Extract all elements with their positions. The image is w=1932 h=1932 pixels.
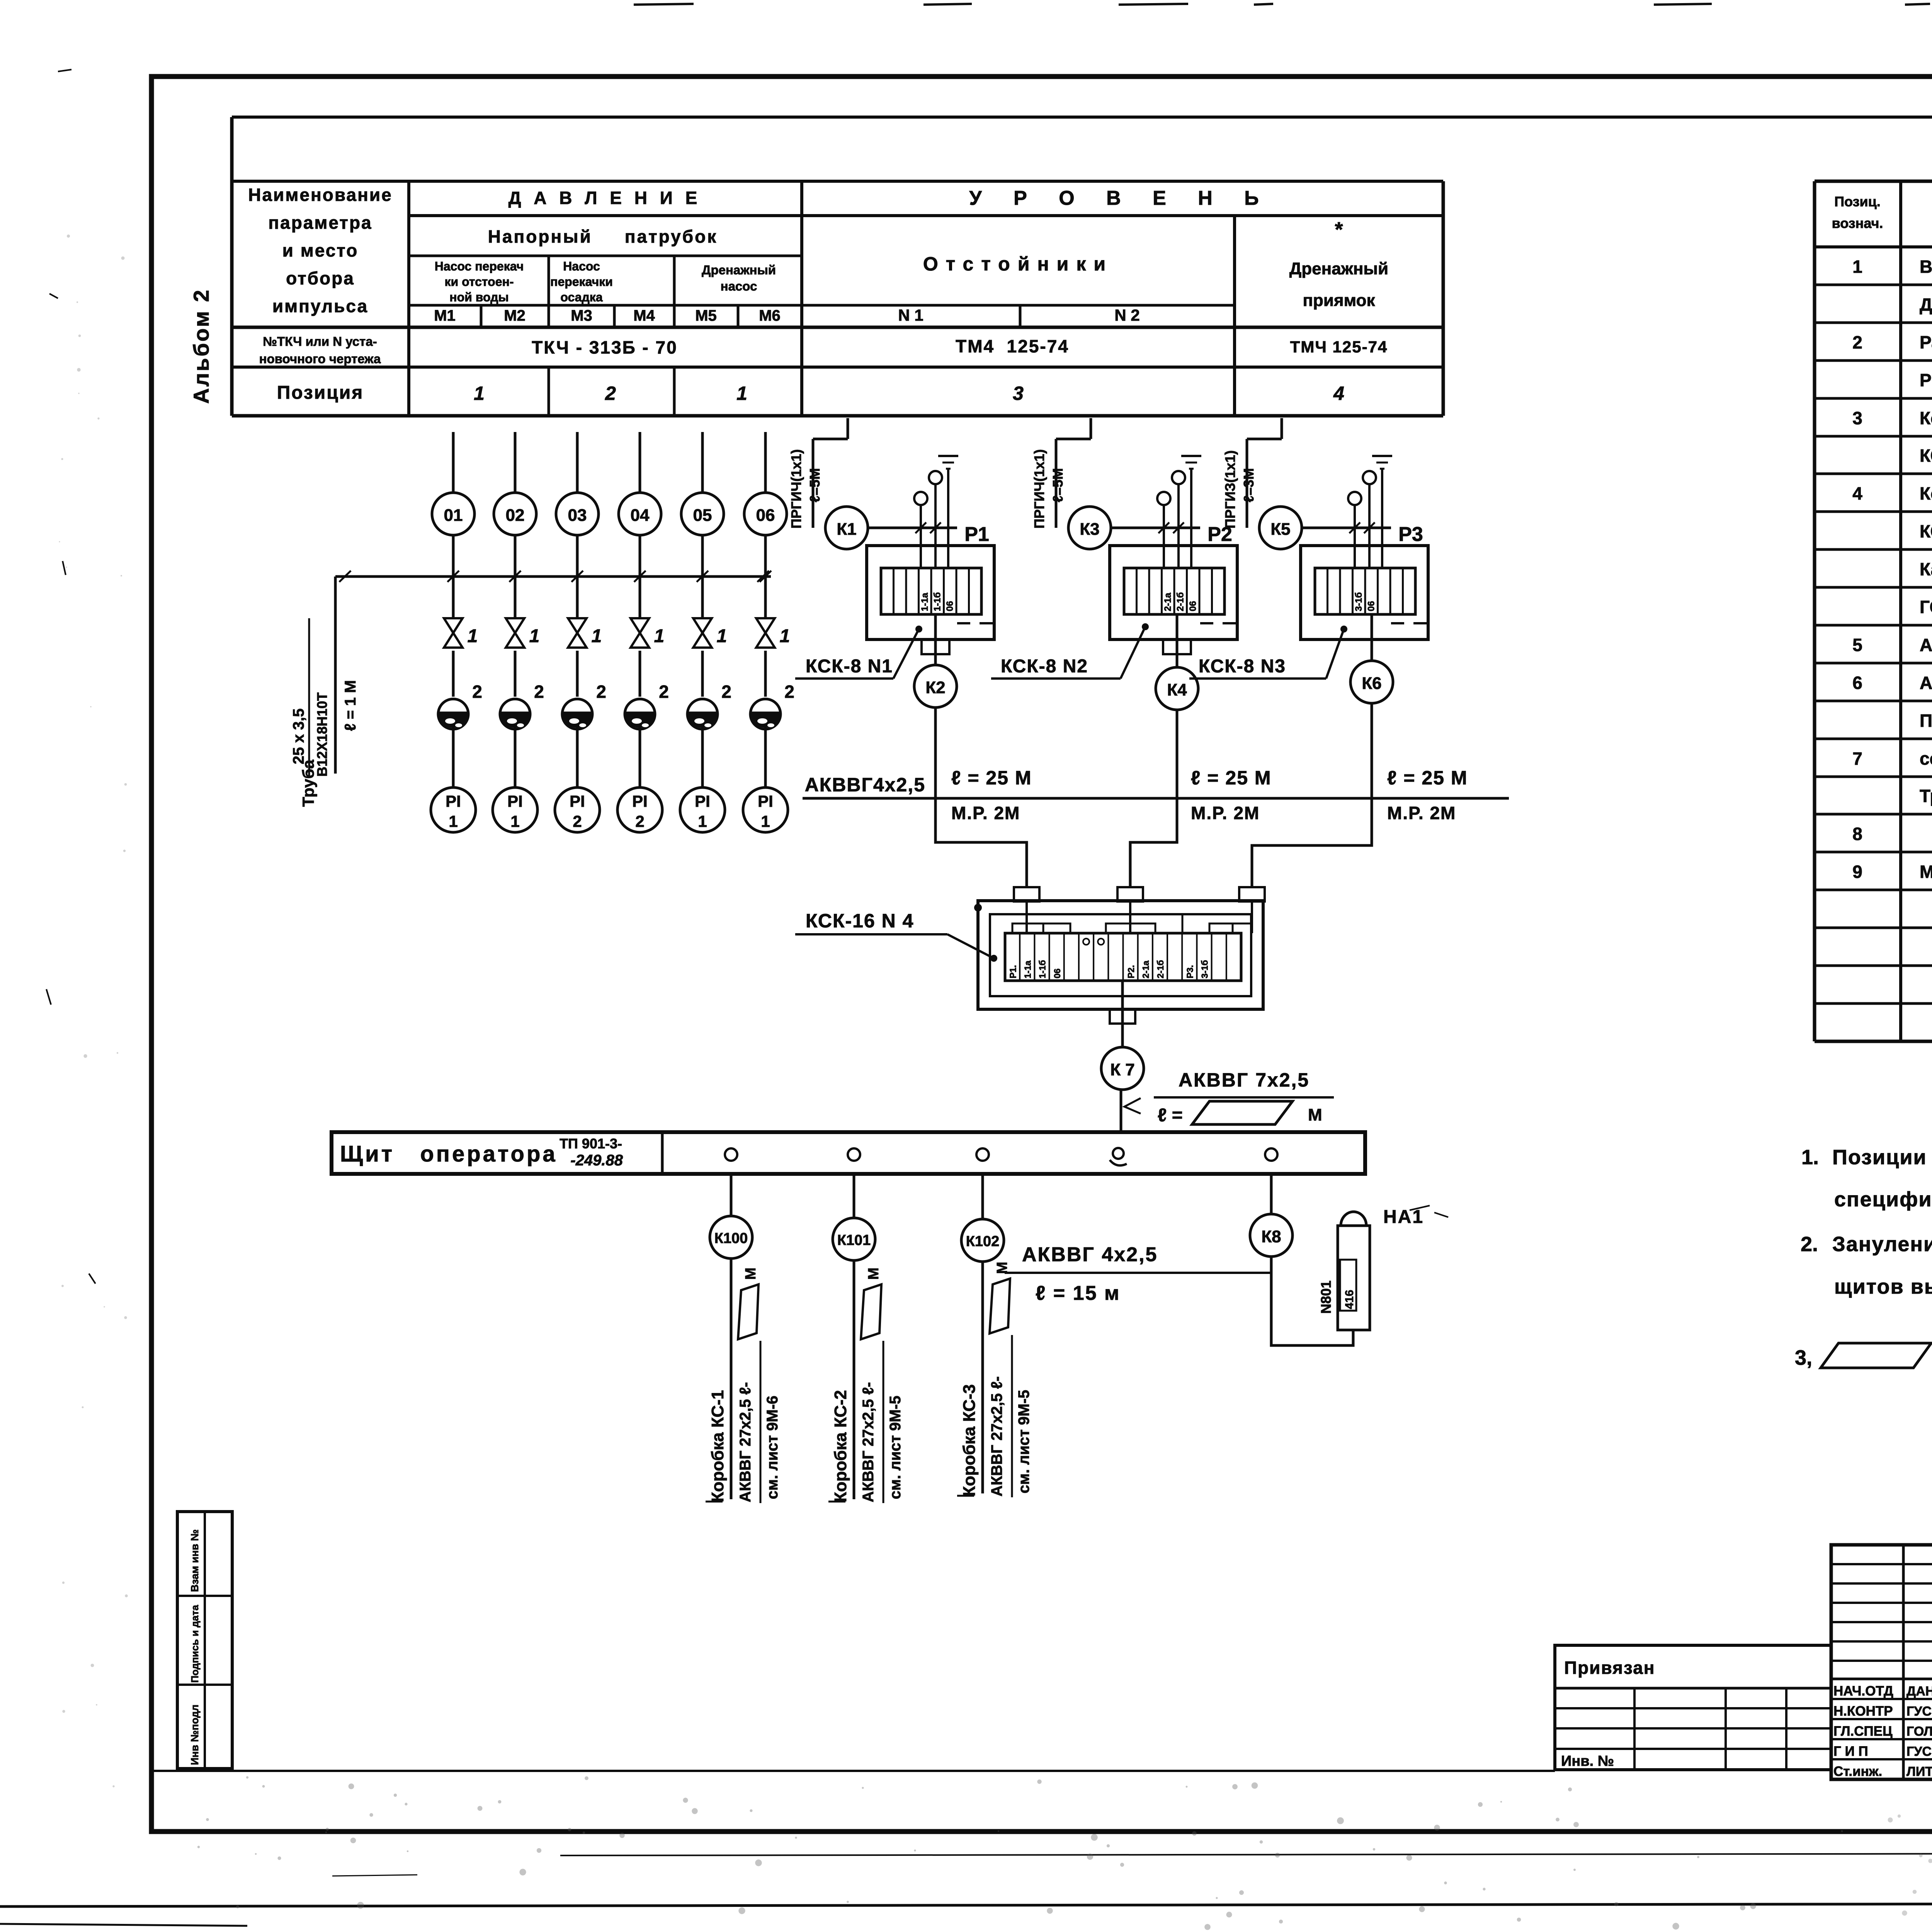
svg-text:К6: К6 — [1362, 674, 1381, 693]
impulse line 3 stem — [576, 432, 579, 493]
cable drop from К6 — [1371, 703, 1373, 798]
svg-text:2: 2 — [605, 383, 616, 404]
svg-text:3-1б: 3-1б — [1354, 592, 1364, 611]
device HA1 (horn) — [1341, 1212, 1366, 1226]
svg-text:М: М — [1308, 1105, 1322, 1124]
svg-text:Зануление приборов, коробок,: Зануление приборов, коробок, каркасов — [1832, 1233, 1932, 1256]
svg-text:-249.88: -249.88 — [570, 1152, 623, 1169]
impulse line 6 stem — [764, 432, 767, 493]
svg-text:1: 1 — [510, 812, 519, 830]
svg-text:№ТКЧ или N уста-: №ТКЧ или N уста- — [263, 334, 377, 349]
wire strip to circle — [1371, 614, 1373, 661]
svg-text:АКВВГ4х2,5: АКВВГ4х2,5 — [805, 774, 925, 796]
svg-text:416: 416 — [1343, 1290, 1356, 1309]
svg-text:Дренажный: Дренажный — [702, 263, 776, 277]
crossing ticks — [447, 571, 459, 582]
svg-text:ℓ = 25 М: ℓ = 25 М — [1191, 767, 1272, 789]
top long horizontal line — [232, 116, 1932, 119]
wire — [514, 651, 517, 697]
cable drop from К4 — [1176, 710, 1179, 798]
terminal circle — [929, 471, 942, 484]
svg-text:новочного чертежа: новочного чертежа — [259, 352, 381, 366]
circle K8 — [1250, 1214, 1293, 1257]
wire K8 to HA1 — [1271, 1257, 1353, 1345]
svg-text:ДАНИЛОВ: ДАНИЛОВ — [1906, 1684, 1932, 1699]
svg-text:8: 8 — [1852, 824, 1862, 844]
svg-text:N 2: N 2 — [1114, 306, 1139, 324]
wire — [452, 535, 455, 617]
svg-text:и место: и место — [282, 240, 359, 260]
svg-text:ГЛ.СПЕЦ: ГЛ.СПЕЦ — [1833, 1724, 1893, 1739]
svg-text:2-1б: 2-1б — [1175, 592, 1185, 611]
wire — [639, 651, 641, 697]
svg-text:К2: К2 — [925, 678, 945, 697]
svg-text:1: 1 — [529, 626, 540, 646]
svg-text:Подпись и дата: Подпись и дата — [189, 1605, 201, 1683]
panel terminals — [725, 1148, 737, 1161]
manometer PI2 (line 4) — [617, 787, 662, 832]
cable gland stub — [1163, 639, 1191, 654]
wire — [452, 726, 455, 787]
svg-text:06: 06 — [756, 506, 775, 525]
svg-text:перекачки: перекачки — [550, 275, 613, 289]
svg-text:Позиц.: Позиц. — [1834, 194, 1881, 209]
svg-text:К100: К100 — [714, 1230, 748, 1247]
svg-text:06: 06 — [945, 601, 955, 611]
svg-text:КСК-8 N3: КСК-8 N3 — [1199, 656, 1286, 677]
svg-text:3: 3 — [1852, 408, 1862, 428]
svg-text:Инв. №: Инв. № — [1561, 1753, 1614, 1769]
membrane separator 2 (line 1) — [438, 699, 468, 729]
ground symbol — [938, 455, 958, 457]
svg-text:1-1б: 1-1б — [1037, 960, 1048, 978]
svg-text:2: 2 — [534, 682, 544, 702]
cable drop and label Korobka KC-3 — [981, 1262, 984, 1493]
svg-text:РМ 5319: РМ 5319 — [1920, 370, 1932, 390]
junction box KCK-8 N1 outline Р1 — [867, 546, 994, 639]
scan noise top dashes — [634, 4, 694, 5]
svg-text:1: 1 — [592, 626, 602, 646]
impulse line 1 stem — [452, 432, 455, 493]
circle К3 — [1068, 507, 1111, 549]
svg-text:ГУСЕВА: ГУСЕВА — [1906, 1744, 1932, 1759]
terminal strip KCK-16 — [1005, 933, 1241, 981]
wire — [701, 726, 704, 787]
svg-text:спецификации АТХ. С01. Альбо: спецификации АТХ. С01. Альбом 5 — [1834, 1188, 1932, 1211]
svg-text:М6: М6 — [759, 307, 781, 324]
circle K7 — [1101, 1047, 1144, 1090]
svg-text:АКВВГ 4 х 2,5 кв. мм: АКВВГ 4 х 2,5 кв. мм — [1920, 635, 1932, 655]
svg-text:ПРГИЧ(1х1): ПРГИЧ(1х1) — [788, 449, 804, 529]
svg-text:Металлорукав Р3-Ц-Х29: Металлорукав Р3-Ц-Х29 — [1920, 862, 1932, 882]
svg-text:параметра: параметра — [268, 213, 372, 233]
svg-text:Д А В Л Е Н И Е: Д А В Л Е Н И Е — [509, 188, 701, 208]
svg-text:Альбом 2: Альбом 2 — [189, 288, 213, 404]
svg-text:1: 1 — [698, 812, 707, 830]
svg-text:Р3.: Р3. — [1185, 965, 1195, 978]
svg-text:1: 1 — [654, 626, 665, 646]
svg-text:ГОЛЬЦМАН: ГОЛЬЦМАН — [1906, 1724, 1932, 1739]
wire from circle into box — [1111, 527, 1200, 529]
svg-text:М5: М5 — [695, 307, 717, 324]
internal conductors — [1026, 901, 1028, 933]
cable drop and label Korobka KC-1 — [730, 1259, 733, 1499]
manometer PI1 (line 5) — [680, 787, 725, 832]
svg-text:К102: К102 — [966, 1233, 1000, 1250]
junction box KCK-8 N2 outline Р2 — [1110, 546, 1237, 639]
valve 1 (line 5) — [693, 618, 712, 633]
manometer PI1 (line 2) — [493, 787, 537, 832]
svg-text:Коробка соединительная: Коробка соединительная — [1920, 408, 1932, 428]
svg-text:приямок: приямок — [1303, 291, 1375, 310]
svg-text:PI: PI — [758, 792, 773, 810]
svg-text:03: 03 — [568, 506, 587, 525]
wire from circle into box — [1302, 527, 1391, 529]
svg-text:PI: PI — [446, 792, 461, 810]
svg-text:1: 1 — [761, 812, 770, 830]
svg-text:2-1а: 2-1а — [1141, 961, 1151, 978]
circle К100 — [710, 1216, 752, 1259]
svg-text:ки отстоен-: ки отстоен- — [445, 275, 514, 289]
wire — [701, 535, 704, 617]
length parallelogram placeholder — [1192, 1101, 1293, 1124]
svg-text:см. лист 9М-5: см. лист 9М-5 — [887, 1396, 904, 1499]
wire — [639, 726, 641, 787]
svg-text:PI: PI — [695, 792, 710, 810]
cable drop from К2 — [934, 707, 937, 798]
valve 1 (line 6) — [756, 618, 775, 633]
manometer PI1 (line 6) — [743, 787, 788, 832]
svg-text:2: 2 — [635, 812, 644, 830]
svg-text:1: 1 — [717, 626, 727, 646]
impulse collecting line — [335, 575, 771, 578]
svg-text:3,: 3, — [1795, 1346, 1812, 1369]
svg-text:АКВВГ 27х2,5 ℓ-: АКВВГ 27х2,5 ℓ- — [988, 1376, 1005, 1497]
wire strip to K7 — [1121, 981, 1124, 1047]
svg-text:Г И П: Г И П — [1833, 1744, 1868, 1759]
impulse line 5 stem — [701, 432, 704, 493]
svg-text:ТМ4 125-74: ТМ4 125-74 — [956, 336, 1069, 356]
svg-text:насос: насос — [721, 279, 757, 293]
svg-text:Насос перекач: Насос перекач — [435, 259, 524, 273]
svg-text:Коробка КС-3: Коробка КС-3 — [960, 1384, 979, 1497]
riser to table with label ПРГИЧ(1х1) — [1055, 439, 1058, 528]
cable drop and label Korobka KC-2 — [853, 1260, 855, 1499]
svg-text:*: * — [1335, 218, 1343, 241]
wire — [514, 535, 517, 617]
svg-text:Р1: Р1 — [964, 523, 989, 546]
ground symbol — [1181, 455, 1201, 457]
svg-text:1-1а: 1-1а — [1022, 961, 1032, 978]
svg-text:Р3: Р3 — [1398, 523, 1423, 546]
membrane separator 2 (line 2) — [500, 699, 530, 729]
svg-text:N801: N801 — [1318, 1281, 1334, 1314]
svg-text:АКВВГ 7 х 2,5 кв. мм: АКВВГ 7 х 2,5 кв. мм — [1920, 673, 1932, 693]
dashed internal line — [1200, 622, 1237, 624]
sensor circle 02 — [494, 493, 536, 535]
svg-text:АКВВГ 4х2,5: АКВВГ 4х2,5 — [1022, 1243, 1158, 1266]
svg-text:М: М — [743, 1267, 759, 1280]
svg-text:2-1б: 2-1б — [1155, 960, 1165, 978]
svg-text:М4: М4 — [633, 307, 655, 324]
svg-text:АКВВГ 27х2,5 ℓ-: АКВВГ 27х2,5 ℓ- — [860, 1382, 877, 1502]
wire — [576, 726, 579, 787]
dashed internal line — [1391, 622, 1428, 624]
left horizontal line to frame — [154, 1770, 1555, 1772]
valve 1 (line 4) — [631, 618, 649, 633]
sensor circle 01 — [432, 493, 474, 535]
svg-text:щитов выполнить согласно ПУЭ: щитов выполнить согласно ПУЭ-85 §I-7-46. — [1834, 1275, 1932, 1298]
svg-text:6: 6 — [1852, 673, 1862, 693]
cable gland stubs on top — [1014, 887, 1039, 901]
svg-text:ПРГИЧ(1х1): ПРГИЧ(1х1) — [1031, 449, 1047, 529]
scan noise left margin marks — [58, 70, 71, 71]
svg-text:Вентиль запорный муфтовый: Вентиль запорный муфтовый — [1920, 257, 1932, 277]
svg-text:Привязан: Привязан — [1564, 1658, 1655, 1678]
title block grid — [1831, 1545, 1932, 1779]
svg-text:5: 5 — [1852, 635, 1862, 655]
svg-text:осадка: осадка — [560, 290, 602, 304]
terminal circle — [1172, 471, 1185, 484]
wire panel to К101 — [853, 1174, 855, 1218]
svg-text:1: 1 — [1852, 257, 1862, 277]
svg-text:сечением ; ПРГИ 1х1 кв. мм: сечением ; ПРГИ 1х1 кв. мм — [1920, 748, 1932, 769]
svg-text:Щит оператора: Щит оператора — [340, 1141, 558, 1167]
terminal strip — [1315, 568, 1415, 614]
svg-text:ℓ = 25 М: ℓ = 25 М — [1387, 767, 1468, 789]
wire strip to circle — [1176, 614, 1179, 667]
valve 1 (line 2) — [506, 618, 524, 633]
collecting line corner drop (pipe) — [334, 577, 337, 774]
wire — [514, 726, 517, 787]
svg-text:ТП 901-3-: ТП 901-3- — [560, 1136, 622, 1151]
junction box KCK-16 N4 outline — [978, 901, 1263, 1009]
svg-text:М3: М3 — [571, 307, 592, 324]
parameter table grid — [230, 117, 234, 416]
svg-text:Напорный патрубок: Напорный патрубок — [488, 226, 718, 247]
svg-text:М.Р. 2М: М.Р. 2М — [1191, 803, 1260, 823]
svg-text:Труба бесшовная ГОСТ 9941-8: Труба бесшовная ГОСТ 9941-81, — [1920, 786, 1932, 806]
terminal strip — [881, 568, 981, 614]
pipe label Truba 25x3.5 / V12X18N10T, l=1m — [308, 618, 310, 776]
svg-text:ℓ =: ℓ = — [1158, 1105, 1183, 1126]
svg-text:ℓ = 15 м: ℓ = 15 м — [1036, 1282, 1120, 1304]
svg-text:PI: PI — [570, 792, 585, 810]
svg-text:1-1а: 1-1а — [920, 592, 930, 611]
svg-text:01: 01 — [444, 506, 463, 525]
svg-text:ТМЧ 125-74: ТМЧ 125-74 — [1290, 338, 1388, 356]
membrane separator 2 (line 5) — [687, 699, 718, 729]
svg-text:К101: К101 — [837, 1232, 871, 1248]
svg-text:ГОСТ 1508-78Е , сечением :: ГОСТ 1508-78Е , сечением : — [1920, 597, 1932, 617]
svg-text:К1: К1 — [837, 520, 856, 539]
svg-text:КСК-8 ; ТУ 36. 1753-75: КСК-8 ; ТУ 36. 1753-75 — [1920, 446, 1932, 466]
svg-text:ℓ=5М: ℓ=5М — [1050, 468, 1066, 502]
svg-text:Наименование: Наименование — [248, 185, 392, 205]
cable drop from K2 to KCK-16 — [935, 798, 1027, 888]
svg-text:2: 2 — [472, 682, 482, 702]
terminal circle — [1157, 492, 1170, 505]
circle К1 — [825, 507, 868, 549]
svg-text:К8: К8 — [1261, 1227, 1281, 1246]
svg-text:ной воды: ной воды — [449, 290, 509, 304]
riser to table with label ПРГИЧ(1х1) — [812, 439, 815, 528]
svg-text:ℓ = 1 М: ℓ = 1 М — [342, 680, 359, 731]
svg-text:N 1: N 1 — [898, 306, 923, 324]
svg-text:Ст.инж.: Ст.инж. — [1833, 1764, 1882, 1779]
wire strip to circle — [934, 614, 937, 665]
svg-text:Р1.: Р1. — [1008, 965, 1018, 978]
wire K7 to operator panel — [1120, 1090, 1122, 1132]
hook terminal for K7 — [1113, 1148, 1124, 1159]
svg-text:2: 2 — [659, 682, 669, 702]
wire — [701, 651, 704, 697]
junction box KCK-8 N3 outline Р3 — [1301, 546, 1428, 639]
circle К5 — [1259, 507, 1302, 549]
svg-text:М1: М1 — [434, 307, 456, 324]
svg-text:КСК-16 N 4: КСК-16 N 4 — [806, 910, 914, 932]
wire panel to К100 — [730, 1174, 733, 1216]
svg-text:Коробка КС-2: Коробка КС-2 — [831, 1390, 850, 1502]
cable drop from K6 to KCK-16 — [1252, 798, 1372, 888]
svg-text:1: 1 — [449, 812, 457, 830]
svg-text:05: 05 — [693, 506, 712, 525]
svg-text:М: М — [866, 1267, 882, 1280]
terminal strip — [1124, 568, 1225, 614]
svg-text:импульса: импульса — [272, 296, 368, 316]
svg-text:3-1б: 3-1б — [1200, 960, 1210, 978]
dashed internal line — [957, 622, 994, 624]
circle К4 — [1156, 667, 1198, 710]
terminal circle — [914, 492, 927, 505]
membrane separator 2 (line 3) — [562, 699, 592, 729]
svg-text:ℓ=3М: ℓ=3М — [1241, 468, 1257, 502]
sensor circle 06 — [744, 493, 787, 535]
svg-text:1: 1 — [474, 383, 485, 404]
svg-text:АКВВГ 27х2,5 ℓ-: АКВВГ 27х2,5 ℓ- — [737, 1382, 754, 1502]
svg-text:02: 02 — [506, 506, 525, 525]
svg-text:06: 06 — [1366, 601, 1376, 611]
manometer PI1 (line 1) — [431, 787, 476, 832]
wire — [576, 651, 579, 697]
svg-text:КСК-8 N1: КСК-8 N1 — [806, 656, 893, 677]
svg-text:PI: PI — [632, 792, 648, 810]
svg-text:отбора: отбора — [286, 268, 355, 288]
riser wires into box — [1354, 505, 1356, 568]
scan noise speckles — [683, 1798, 688, 1803]
svg-text:К4: К4 — [1167, 680, 1187, 699]
svg-text:Взам инв №: Взам инв № — [189, 1529, 201, 1592]
svg-text:06: 06 — [1052, 968, 1062, 978]
circle К6 — [1350, 661, 1393, 703]
operator panel Shchit operatora — [332, 1132, 1365, 1174]
wire from circle into box — [868, 527, 957, 529]
svg-text:1.: 1. — [1801, 1146, 1819, 1169]
circle К101 — [833, 1218, 875, 1260]
svg-text:4: 4 — [1852, 483, 1862, 503]
sensor circle 04 — [619, 493, 661, 535]
svg-text:Коробка КС-1: Коробка КС-1 — [708, 1390, 727, 1502]
svg-text:М.Р. 2М: М.Р. 2М — [951, 803, 1020, 823]
riser to table with label ПРГИЗ(1х1) — [1246, 439, 1248, 528]
specification table grid — [1813, 181, 1816, 1041]
svg-text:2: 2 — [596, 682, 606, 702]
svg-text:ℓ = 25 М: ℓ = 25 М — [951, 767, 1032, 789]
svg-text:ЛИТВИНОВА: ЛИТВИНОВА — [1906, 1764, 1932, 1779]
terminal dots — [1083, 939, 1089, 945]
svg-text:2.: 2. — [1801, 1233, 1818, 1256]
riser wires into box — [1163, 505, 1165, 568]
privyazan box — [1555, 1645, 1831, 1770]
svg-text:PI: PI — [507, 792, 523, 810]
svg-text:К 7: К 7 — [1110, 1060, 1135, 1079]
terminal circle — [1348, 492, 1361, 505]
cable line AKVVG4x2.5 — [803, 797, 1509, 800]
impulse line 4 stem — [639, 432, 641, 493]
svg-text:Коробка соединительная: Коробка соединительная — [1920, 483, 1932, 503]
svg-text:4: 4 — [1333, 383, 1344, 404]
svg-text:Р2.: Р2. — [1126, 965, 1136, 978]
ground symbol — [1372, 455, 1392, 457]
svg-text:Кабель с алюминиевой жилой: Кабель с алюминиевой жилой — [1920, 559, 1932, 579]
svg-text:Дренажный: Дренажный — [1289, 259, 1388, 278]
svg-text:9: 9 — [1852, 862, 1862, 882]
terminal circle — [1363, 471, 1376, 484]
svg-text:Насос: Насос — [563, 259, 600, 273]
bottom-left stamp table — [177, 1512, 232, 1769]
wire — [452, 651, 455, 697]
valve 1 (line 1) — [444, 618, 463, 633]
svg-text:04: 04 — [631, 506, 650, 525]
arrow on wire — [1124, 1098, 1141, 1114]
circle К2 — [914, 665, 957, 707]
svg-text:1-1б: 1-1б — [932, 592, 942, 611]
svg-text:Ду = 15 мм ; Рр = 16 кГс/см²: Ду = 15 мм ; Рр = 16 кГс/см² 11Б18бк — [1920, 294, 1932, 315]
svg-text:КСК-8 N2: КСК-8 N2 — [1001, 656, 1088, 677]
valve 1 (line 3) — [568, 618, 587, 633]
svg-text:ПРГИЗ(1х1): ПРГИЗ(1х1) — [1222, 450, 1238, 529]
impulse line 2 stem — [514, 432, 517, 493]
wire — [764, 651, 767, 697]
circle К102 — [961, 1219, 1004, 1262]
scan noise bottom lines — [560, 1853, 1932, 1855]
svg-text:К3: К3 — [1080, 520, 1099, 539]
svg-text:Н.КОНТР: Н.КОНТР — [1833, 1704, 1893, 1719]
membrane separator 2 (line 6) — [750, 699, 781, 729]
svg-text:06: 06 — [1188, 601, 1198, 611]
svg-text:Инв №подл: Инв №подл — [189, 1704, 201, 1765]
svg-text:2: 2 — [573, 812, 582, 830]
svg-text:1: 1 — [468, 626, 478, 646]
svg-text:Позиции приборов соответству: Позиции приборов соответствуют — [1832, 1146, 1932, 1169]
cable gland stub — [922, 639, 949, 654]
wire — [764, 535, 767, 617]
cable drop from K4 to KCK-16 — [1130, 798, 1177, 888]
svg-text:КСК-16 ; ТУ 36. 1753-75: КСК-16 ; ТУ 36. 1753-75 — [1920, 521, 1932, 541]
wire — [764, 726, 767, 787]
svg-text:ТКЧ - 313Б - 70: ТКЧ - 313Б - 70 — [532, 337, 677, 357]
svg-text:2: 2 — [784, 682, 794, 702]
svg-text:У Р О В Е Н Ь: У Р О В Е Н Ь — [969, 187, 1272, 209]
svg-text:2-1а: 2-1а — [1163, 592, 1173, 611]
svg-text:см. лист 9М-6: см. лист 9М-6 — [764, 1396, 781, 1499]
svg-text:АКВВГ 7х2,5: АКВВГ 7х2,5 — [1179, 1069, 1310, 1091]
svg-text:см. лист 9М-5: см. лист 9М-5 — [1015, 1390, 1032, 1493]
svg-text:М.Р. 2М: М.Р. 2М — [1387, 803, 1456, 823]
svg-text:Труба: Труба — [299, 760, 317, 807]
sensor circle 03 — [556, 493, 599, 535]
svg-text:3: 3 — [1013, 383, 1024, 404]
